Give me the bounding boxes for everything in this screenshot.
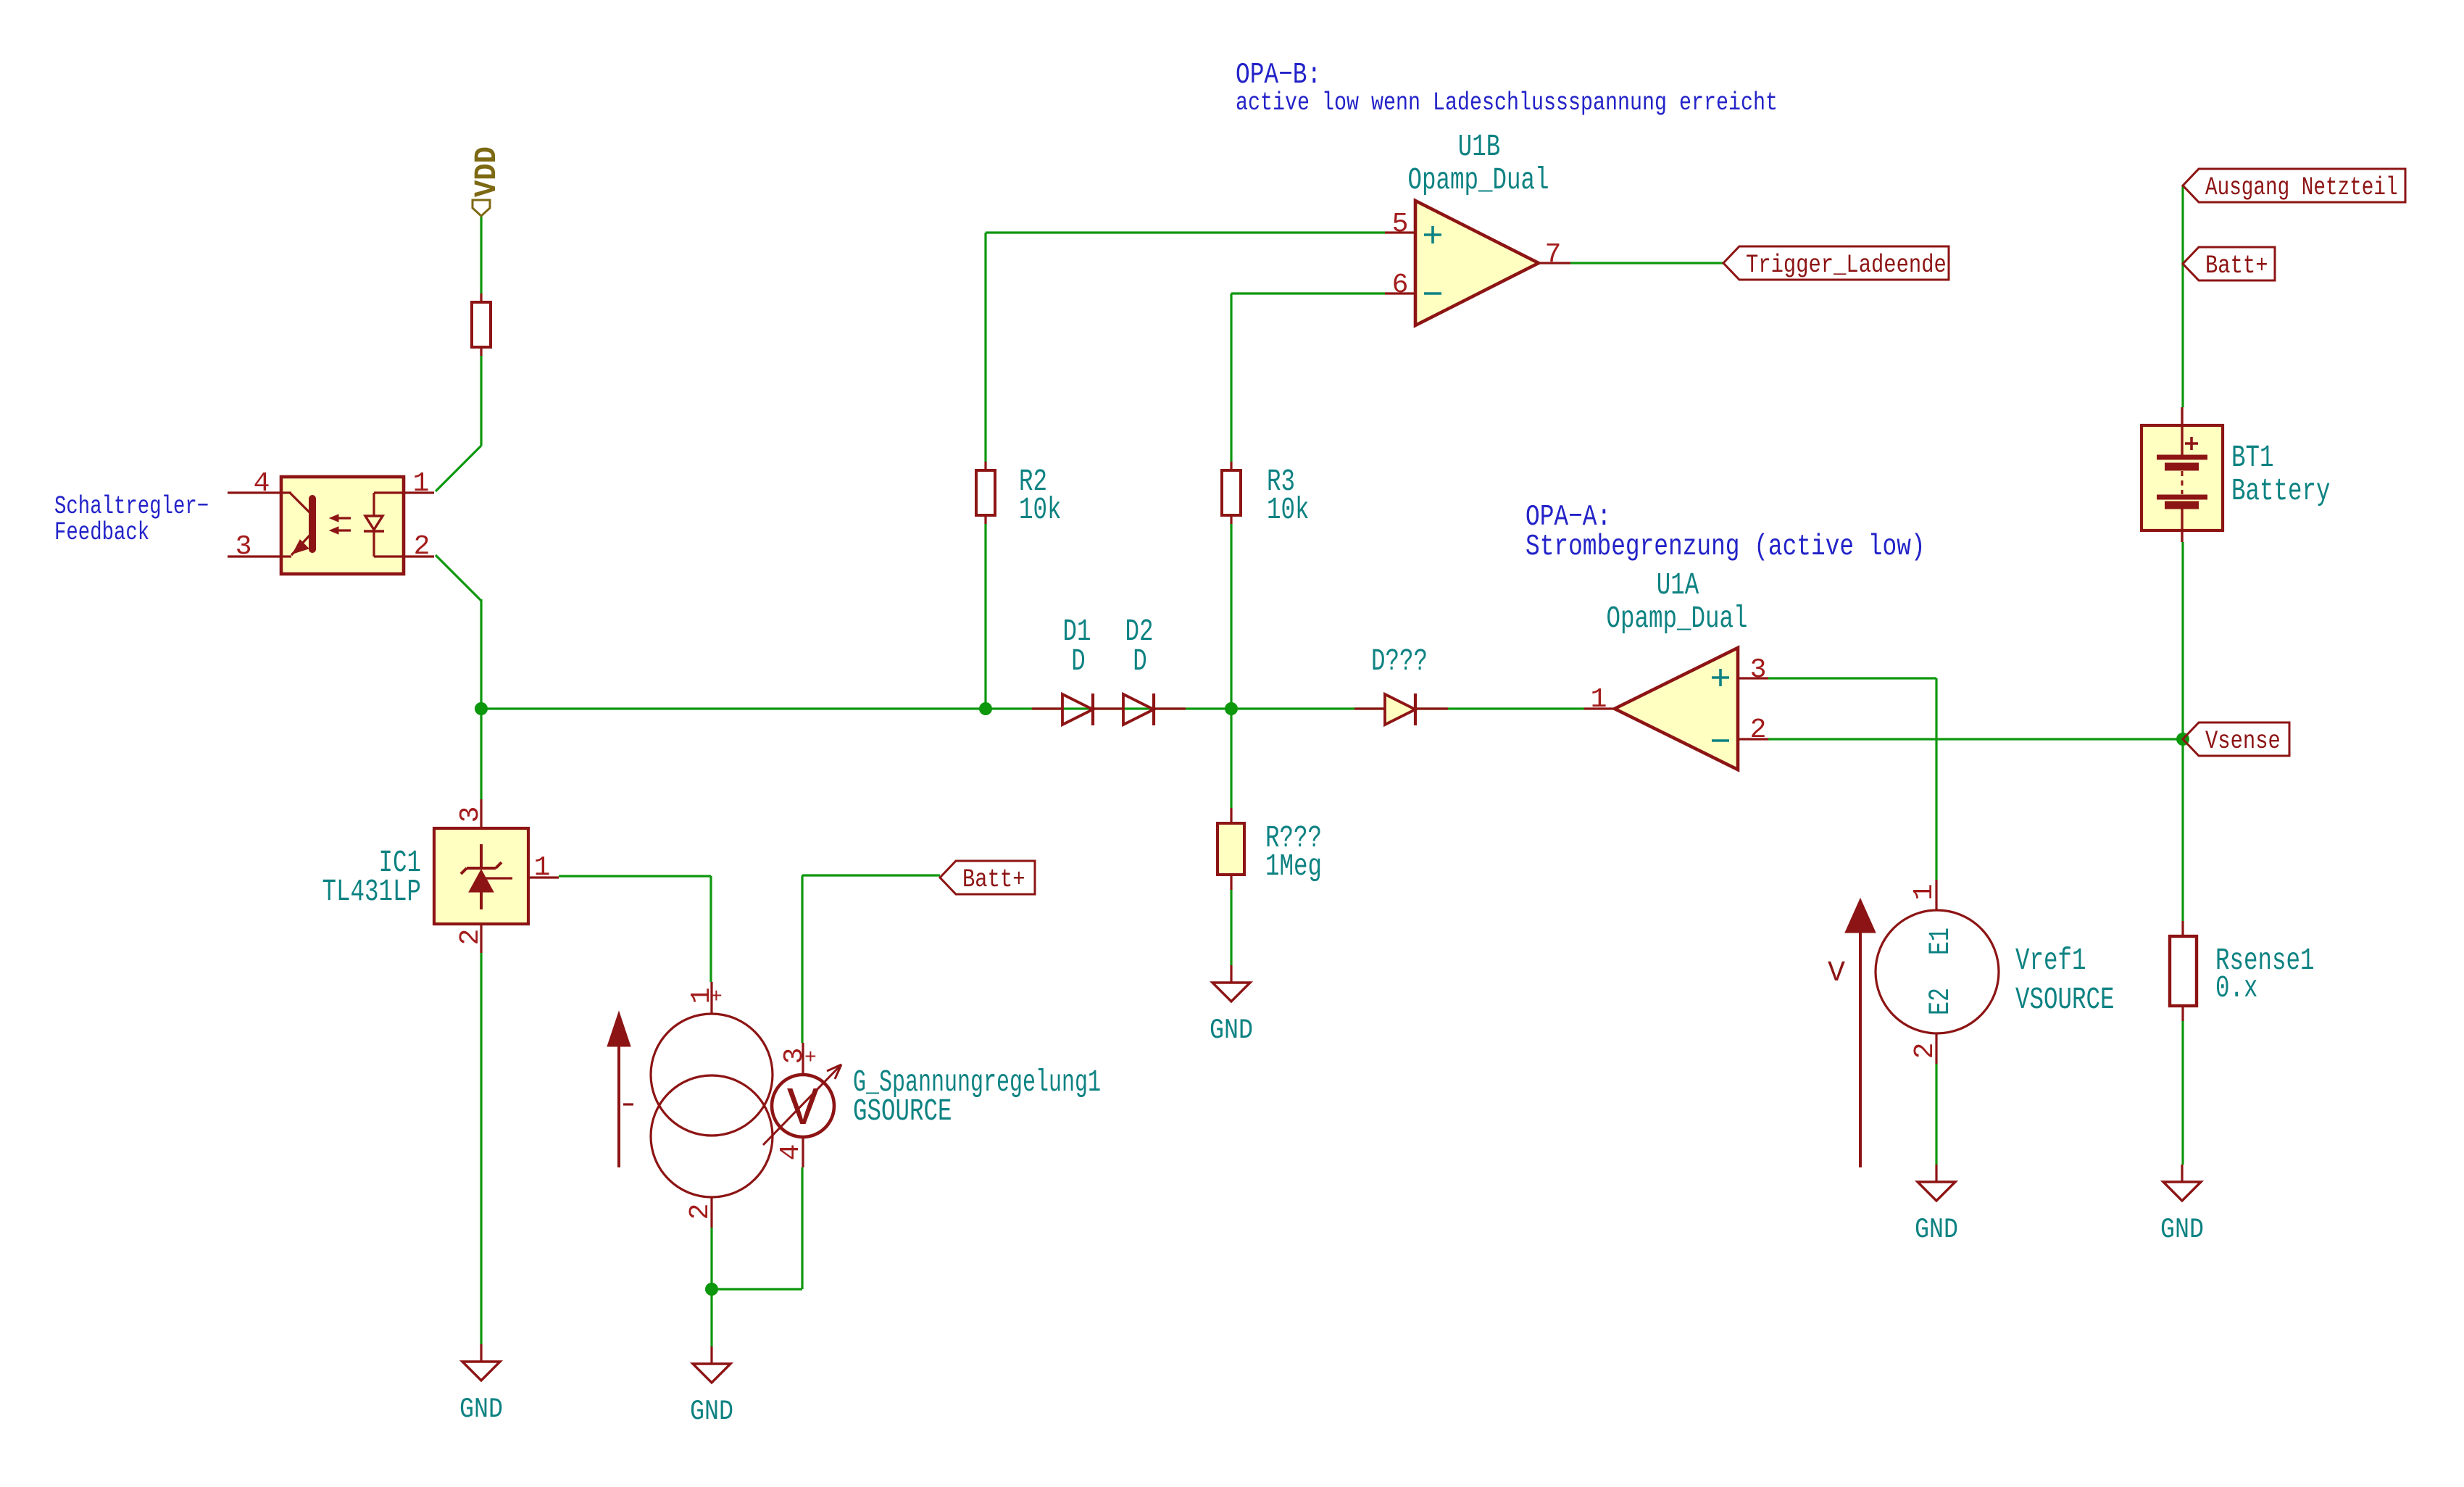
- ground below IC1: [480, 953, 482, 1344]
- global label Trigger_Ladeende: [1723, 246, 1949, 280]
- svg-text:3: 3: [1750, 654, 1767, 686]
- svg-text:10k: 10k: [1019, 492, 1062, 528]
- IC1 pin 3: [480, 799, 482, 828]
- svg-text:VSOURCE: VSOURCE: [2015, 982, 2115, 1017]
- wire R2 to bus: [984, 524, 986, 709]
- svg-text:7: 7: [1545, 239, 1562, 270]
- svg-text:D???: D???: [1371, 643, 1428, 679]
- GSOURCE V meter circle: [772, 1075, 834, 1137]
- svg-text:Vref1: Vref1: [2015, 943, 2086, 978]
- svg-text:GND: GND: [690, 1396, 733, 1428]
- optocoupler pin 3: [228, 555, 281, 557]
- svg-text:GND: GND: [1915, 1214, 1958, 1246]
- node main junction: [475, 702, 488, 715]
- U1A pin 1: [1584, 707, 1615, 709]
- global label Batt+ (left): [940, 861, 1035, 894]
- optocoupler pin 2: [404, 555, 434, 557]
- svg-text:TL431LP: TL431LP: [322, 874, 422, 909]
- optocoupler LED: [374, 491, 404, 493]
- svg-text:GND: GND: [2160, 1214, 2204, 1246]
- svg-text:6: 6: [1392, 270, 1409, 301]
- ground below Vref1: [1935, 1165, 1937, 1182]
- svg-text:V: V: [1828, 957, 1845, 990]
- wire bus to R???: [1230, 709, 1232, 808]
- wire U1B pin5 to R2: [986, 231, 1385, 233]
- Vref1 pin 2: [1935, 1033, 1937, 1064]
- ground below R???: [1230, 965, 1232, 983]
- svg-text:2: 2: [1910, 1043, 1941, 1059]
- IC1 TL431 zener symbol: [480, 844, 483, 870]
- svg-text:+: +: [804, 1047, 817, 1070]
- svg-text:OPA−B:: OPA−B:: [1236, 59, 1321, 92]
- optocoupler phototransistor: [309, 499, 316, 549]
- U1A pin 3: [1738, 677, 1768, 679]
- GSOURCE pin 1: [710, 982, 712, 1014]
- battery BT1 box: [2142, 425, 2223, 530]
- svg-text:E1: E1: [1925, 928, 1957, 955]
- svg-text:D: D: [1071, 643, 1086, 679]
- node R3 bus junction: [1225, 702, 1238, 715]
- svg-text:GND: GND: [459, 1394, 503, 1425]
- U1B pin 6: [1385, 292, 1415, 294]
- svg-text:1: 1: [534, 852, 551, 883]
- U1A plus minus: [1712, 676, 1729, 679]
- GSOURCE pin 4: [802, 1137, 804, 1167]
- svg-text:VDD: VDD: [469, 146, 504, 197]
- wire GSOURCE pin3 to Batt+: [802, 874, 940, 876]
- svg-text:5: 5: [1392, 209, 1409, 240]
- svg-text:Trigger_Ladeende: Trigger_Ladeende: [1746, 251, 1947, 280]
- diode D???: [1354, 707, 1385, 709]
- svg-text:1: 1: [1591, 684, 1607, 715]
- svg-text:Ausgang Netzteil: Ausgang Netzteil: [2205, 173, 2398, 202]
- wire U1A pin3 to Vref1 pin1: [1768, 677, 1936, 679]
- optocoupler pin 4: [228, 491, 281, 493]
- GSOURCE current arrow I: [617, 1046, 620, 1167]
- svg-text:2: 2: [685, 1204, 716, 1220]
- diode D2: [1093, 707, 1123, 709]
- svg-text:active low wenn Ladeschlussspa: active low wenn Ladeschlussspannung erre…: [1236, 88, 1778, 117]
- node GSOURCE return junction: [705, 1283, 718, 1296]
- svg-text:2: 2: [414, 531, 430, 562]
- IC1 pin 1: [528, 876, 559, 878]
- wire battery to Rsense1: [2181, 542, 2184, 921]
- svg-text:U1A: U1A: [1657, 567, 1699, 603]
- svg-text:4: 4: [254, 468, 270, 499]
- global label Vsense: [2183, 722, 2289, 756]
- svg-text:3: 3: [236, 531, 252, 562]
- resistor R1 (unlabeled): [480, 293, 482, 302]
- svg-text:Battery: Battery: [2231, 473, 2331, 509]
- U1B plus minus: [1424, 233, 1441, 236]
- svg-text:10k: 10k: [1267, 492, 1310, 528]
- svg-text:2: 2: [455, 929, 486, 946]
- GSOURCE circles: [651, 1014, 773, 1136]
- svg-text:GSOURCE: GSOURCE: [853, 1094, 952, 1129]
- svg-text:OPA−A:: OPA−A:: [1526, 501, 1611, 534]
- svg-text:Strombegrenzung (active low): Strombegrenzung (active low): [1526, 530, 1926, 564]
- wire U1A pin2 to Vsense: [1768, 738, 2183, 740]
- svg-text:D: D: [1133, 643, 1147, 679]
- wire Rsense1 to GND: [2181, 1021, 2184, 1165]
- Vref1 circle: [1876, 910, 1999, 1033]
- wire GSOURCE pin4 to node: [712, 1288, 802, 1290]
- svg-text:Vsense: Vsense: [2205, 727, 2281, 756]
- svg-text:+: +: [710, 986, 723, 1009]
- node Vsense junction: [2176, 733, 2189, 746]
- svg-text:3: 3: [455, 807, 486, 823]
- resistor R3: [1230, 462, 1232, 470]
- Vref1 pin 1: [1935, 880, 1937, 910]
- op-amp U1A: [1615, 648, 1738, 770]
- resistor Rsense1: [2181, 921, 2184, 936]
- wire node to IC1 pin3: [480, 709, 482, 799]
- optocoupler pin 1: [404, 491, 434, 493]
- wire Ausgang Netzteil to battery: [2181, 186, 2184, 407]
- wire opto pin2 to main node: [436, 555, 481, 601]
- svg-text:GND: GND: [1210, 1015, 1253, 1046]
- svg-text:2: 2: [1750, 715, 1767, 746]
- resistor R??? 1Meg: [1230, 808, 1232, 823]
- diode D1: [1032, 707, 1062, 709]
- svg-text:Feedback: Feedback: [54, 518, 149, 547]
- svg-text:1: 1: [1909, 884, 1940, 901]
- GSOURCE pin 2: [710, 1197, 712, 1228]
- IC1 box: [434, 828, 528, 924]
- svg-text:U1B: U1B: [1458, 129, 1501, 164]
- svg-text:1: 1: [413, 468, 430, 499]
- svg-text:Batt+: Batt+: [962, 865, 1025, 894]
- wire GSOURCE pin2 to GND: [710, 1228, 712, 1346]
- svg-text:1Meg: 1Meg: [1265, 849, 1322, 884]
- optocoupler light arrows: [335, 517, 351, 519]
- wire R1 to opto pin1: [480, 356, 482, 446]
- wire U1B pin6 to R3: [1231, 292, 1385, 294]
- wire Vref1 pin2 to GND: [1935, 1064, 1937, 1165]
- svg-text:BT1: BT1: [2231, 440, 2274, 475]
- GSOURCE meter arrow: [763, 1065, 841, 1145]
- global label Batt+ (right): [2183, 247, 2275, 280]
- battery BT1 internals: [2181, 407, 2183, 455]
- wire R3 to bus: [1230, 524, 1232, 709]
- Vref1 V arrow: [1859, 933, 1862, 1167]
- svg-text:4: 4: [775, 1144, 807, 1161]
- global label Ausgang Netzteil: [2183, 169, 2405, 202]
- svg-text:Batt+: Batt+: [2205, 251, 2268, 280]
- svg-text:0.x: 0.x: [2215, 970, 2258, 1006]
- svg-text:Schaltregler−: Schaltregler−: [54, 492, 209, 521]
- wire main bus: [481, 707, 1584, 709]
- IC1 pin 2: [480, 924, 482, 953]
- wire IC1 pin1 to GSOURCE pin1: [559, 875, 711, 877]
- U1B pin 7: [1539, 262, 1570, 264]
- wire U1B pin7 to Trigger_Ladeende: [1570, 262, 1723, 264]
- optocoupler U? box: [281, 477, 404, 574]
- svg-text:V: V: [787, 1080, 820, 1141]
- resistor R2: [984, 462, 986, 470]
- wire VDD to R1: [480, 216, 482, 293]
- svg-text:Opamp_Dual: Opamp_Dual: [1408, 162, 1549, 198]
- node R2 bus junction: [979, 702, 992, 715]
- U1A pin 2: [1738, 738, 1768, 740]
- U1B pin 5: [1385, 231, 1415, 233]
- GSOURCE pin 3: [802, 1043, 804, 1075]
- op-amp U1B: [1415, 201, 1539, 325]
- svg-text:E2: E2: [1925, 988, 1957, 1015]
- wire R??? to GND: [1230, 890, 1232, 965]
- svg-text:Opamp_Dual: Opamp_Dual: [1607, 601, 1748, 636]
- ground below Rsense1: [2181, 1165, 2183, 1182]
- ground below GSOURCE: [710, 1346, 712, 1364]
